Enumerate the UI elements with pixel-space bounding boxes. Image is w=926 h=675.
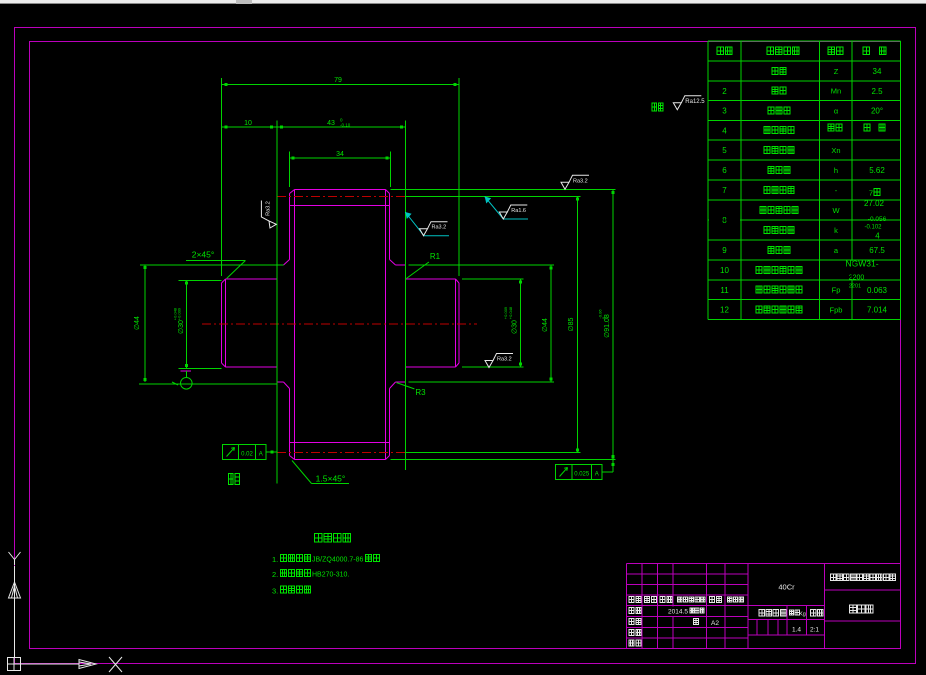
svg-text:-0.10: -0.10 <box>340 123 351 128</box>
svg-text:∅85: ∅85 <box>568 317 575 331</box>
svg-text:2.: 2. <box>272 570 278 579</box>
view label small text <box>229 474 240 485</box>
svg-text:R3: R3 <box>415 388 426 397</box>
svg-text:34: 34 <box>873 67 882 76</box>
title block grid right <box>825 564 901 649</box>
title block row craft <box>629 640 641 646</box>
svg-text:JB/ZQ4000.7-86: JB/ZQ4000.7-86 <box>312 557 363 564</box>
pitch line bottom <box>277 452 406 454</box>
svg-text:-0.056: -0.056 <box>868 216 887 223</box>
svg-text:79: 79 <box>334 77 342 84</box>
svg-text:7: 7 <box>869 189 873 198</box>
svg-text:A: A <box>259 452 263 458</box>
left groove step <box>277 260 290 389</box>
svg-text:h: h <box>834 166 838 175</box>
stage mark weight scale header <box>759 610 786 617</box>
svg-text:1.5×45°: 1.5×45° <box>316 474 346 484</box>
table body rows <box>772 67 786 74</box>
svg-text:-0.102: -0.102 <box>864 225 882 231</box>
technical requirements title <box>315 534 351 543</box>
svg-text:Fp: Fp <box>832 286 841 295</box>
svg-text:0.025: 0.025 <box>574 472 590 478</box>
svg-text:40Cr: 40Cr <box>778 583 795 592</box>
svg-text:Fpb: Fpb <box>830 305 843 314</box>
surface finish Ra3.2 rotated left <box>261 201 276 229</box>
svg-text:34: 34 <box>336 151 344 158</box>
parameter table grid <box>708 41 901 320</box>
svg-text:4: 4 <box>875 232 880 241</box>
general surface note <box>652 103 663 111</box>
merged cell masks <box>709 219 740 221</box>
svg-text:2014.5: 2014.5 <box>668 609 688 616</box>
svg-text:6: 6 <box>722 166 727 175</box>
svg-text:Ra3.2: Ra3.2 <box>432 225 447 231</box>
datum A circle <box>181 370 192 372</box>
svg-text:10: 10 <box>244 120 252 127</box>
svg-text:R1: R1 <box>430 252 441 261</box>
school name <box>831 574 896 581</box>
svg-text:Ra3.2: Ra3.2 <box>266 201 272 216</box>
dim 79 overall <box>222 78 460 276</box>
svg-text:Kg: Kg <box>799 612 806 618</box>
gear root lines <box>290 206 390 443</box>
right groove step <box>390 260 406 389</box>
svg-text:3.: 3. <box>272 587 278 596</box>
svg-text:20°: 20° <box>871 107 883 116</box>
title block row design <box>629 608 641 614</box>
svg-text:A: A <box>595 472 599 478</box>
svg-text:7.014: 7.014 <box>867 306 888 315</box>
svg-text:∅30: ∅30 <box>512 320 519 334</box>
left hub outline <box>222 279 278 367</box>
svg-text:4: 4 <box>722 126 727 135</box>
svg-text:∅30: ∅30 <box>178 320 185 334</box>
pitch line top <box>277 196 406 198</box>
surface finish Ra3.2 right hub <box>485 354 513 368</box>
svg-text:1.: 1. <box>272 555 278 564</box>
svg-text:Ra12.5: Ra12.5 <box>685 99 705 105</box>
svg-text:Z: Z <box>834 67 839 76</box>
svg-text:43: 43 <box>327 120 335 127</box>
svg-text:+0.048: +0.048 <box>508 306 513 319</box>
svg-text:Ra1.6: Ra1.6 <box>511 208 526 214</box>
svg-text:12: 12 <box>720 306 729 315</box>
svg-text:9: 9 <box>722 246 727 255</box>
svg-text:∅44: ∅44 <box>134 316 141 330</box>
svg-text:α: α <box>834 106 839 115</box>
dim 34 <box>290 152 391 188</box>
title block grid left <box>627 564 749 649</box>
svg-text:NGW31-: NGW31- <box>845 259 878 269</box>
surface finish Ra3.2 top right <box>561 175 589 189</box>
title block row check A2 <box>629 619 641 625</box>
dim 10 <box>222 126 278 129</box>
svg-text:27.02: 27.02 <box>864 199 885 208</box>
title block row audit <box>629 630 641 636</box>
svg-text:Ra3.2: Ra3.2 <box>497 357 512 363</box>
svg-text:Ra3.2: Ra3.2 <box>573 178 588 184</box>
svg-text:+0.009: +0.009 <box>177 307 182 320</box>
gear body outline <box>290 190 390 460</box>
svg-text:2201: 2201 <box>849 284 861 290</box>
dim dia44 left <box>139 265 284 384</box>
gtol frame runout 0.02 A <box>223 445 267 460</box>
right hub outline <box>406 279 460 367</box>
title block header texts <box>629 597 641 603</box>
axis centerline <box>202 323 477 325</box>
dim 43 with tolerance <box>277 121 406 484</box>
svg-text:+0.009: +0.009 <box>503 306 508 319</box>
table header row <box>717 47 732 55</box>
part name planet gear <box>850 605 874 613</box>
svg-text:5: 5 <box>722 146 727 155</box>
title block grid middle <box>748 564 825 649</box>
svg-text:2200: 2200 <box>849 275 865 282</box>
UCS icon <box>8 552 123 672</box>
dim dia44 right <box>409 265 555 382</box>
svg-text:10: 10 <box>720 266 729 275</box>
svg-text:0.063: 0.063 <box>867 286 888 295</box>
window top bar <box>0 0 926 4</box>
svg-text:67.5: 67.5 <box>869 246 885 255</box>
svg-text:k: k <box>834 226 838 235</box>
dim dia85 pitch <box>406 197 581 453</box>
svg-text:Mn: Mn <box>831 87 841 96</box>
dim dia91.08 OD with tolerance <box>391 190 616 460</box>
svg-text:2: 2 <box>722 87 727 96</box>
svg-text:HB270-310.: HB270-310. <box>312 572 349 579</box>
dim dia30 left with tolerance <box>179 281 222 369</box>
svg-text:1.4: 1.4 <box>792 627 801 634</box>
svg-text:-0.06: -0.06 <box>598 309 603 319</box>
svg-text:0.02: 0.02 <box>241 452 253 458</box>
svg-text:7: 7 <box>722 186 727 195</box>
dim dia30 right with tolerance <box>462 279 524 367</box>
svg-text:Xn: Xn <box>831 146 840 155</box>
svg-text:3: 3 <box>722 107 727 116</box>
surface finish Ra1.6 leader pitch <box>485 197 528 220</box>
surface finish Ra3.2 leader left flank <box>405 212 449 236</box>
svg-text:2×45°: 2×45° <box>192 250 215 260</box>
svg-text:2:1: 2:1 <box>810 627 819 634</box>
svg-text:W: W <box>832 206 840 215</box>
svg-text:A2: A2 <box>711 620 719 627</box>
svg-text:11: 11 <box>720 286 729 295</box>
gtol frame runout 0.025 A <box>556 465 603 480</box>
svg-text:2.5: 2.5 <box>871 87 883 96</box>
svg-text:5.62: 5.62 <box>869 166 885 175</box>
svg-text:∅44: ∅44 <box>542 318 549 332</box>
title block merged cell mask <box>672 607 674 617</box>
table row4 subheader <box>828 124 842 131</box>
